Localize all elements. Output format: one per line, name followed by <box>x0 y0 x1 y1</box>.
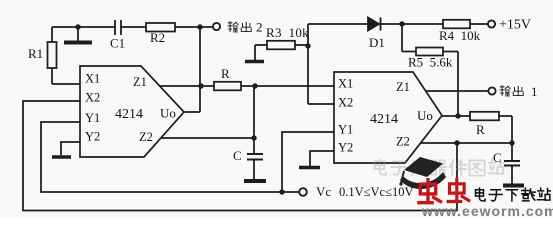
wire D1 node to R4 <box>402 23 443 25</box>
svg-text:Z2: Z2 <box>396 135 410 149</box>
junction R3 node <box>305 43 310 48</box>
capacitor C1 <box>115 20 121 35</box>
svg-text:Z1: Z1 <box>133 75 147 89</box>
wire Y2 first to ground <box>61 142 80 155</box>
resistor R2 <box>146 23 175 32</box>
svg-text:C: C <box>233 148 242 163</box>
diode D1 <box>368 18 402 31</box>
svg-text:X2: X2 <box>338 96 353 110</box>
watermark black site name <box>476 188 551 201</box>
resistor R5 <box>416 48 443 56</box>
svg-text:0.1V≤Vc≤10V: 0.1V≤Vc≤10V <box>339 185 413 199</box>
wire R right down <box>499 116 512 143</box>
op-amp U1 4214 first <box>80 66 184 157</box>
svg-text:www.eeworm.com: www.eeworm.com <box>421 203 553 218</box>
svg-text:Uo: Uo <box>160 106 176 121</box>
svg-text:Z2: Z2 <box>139 130 153 144</box>
label output2 <box>228 22 251 33</box>
ground C second <box>503 184 524 188</box>
junction D1 cathode node <box>399 21 404 26</box>
chip2 pin labels <box>338 77 433 155</box>
resistor R (right) <box>470 112 499 121</box>
svg-text:4214: 4214 <box>370 112 398 127</box>
svg-text:2: 2 <box>256 20 263 35</box>
junction C first node <box>251 135 256 140</box>
svg-text:Y2: Y2 <box>338 141 353 155</box>
wire node to X2 second <box>308 46 334 104</box>
svg-text:Y2: Y2 <box>85 130 100 144</box>
svg-text:+15V: +15V <box>499 18 531 33</box>
svg-text:X1: X1 <box>85 72 100 86</box>
junction node after R middle <box>252 83 257 88</box>
ground R3 <box>245 45 267 62</box>
terminal Vc <box>299 188 307 196</box>
resistor R (middle) <box>214 82 241 91</box>
ground top-left <box>64 27 92 43</box>
wire node to R5 <box>402 24 416 52</box>
wire Y2 second to ground <box>310 151 334 166</box>
svg-text:Z1: Z1 <box>396 80 410 94</box>
svg-text:D1: D1 <box>369 35 385 50</box>
wire Y1 Vc loop <box>41 122 299 192</box>
wire output2 vertical <box>184 27 200 112</box>
wire Z1 first <box>160 85 214 87</box>
svg-text:4214: 4214 <box>115 107 143 122</box>
junction output2 node <box>197 24 202 29</box>
junction C second node <box>509 140 514 145</box>
wire R4 to +15V <box>470 23 488 25</box>
watermark cap logo <box>399 157 446 189</box>
svg-text:R2: R2 <box>150 30 165 45</box>
svg-text:R4 10k: R4 10k <box>439 28 481 43</box>
svg-text:R3 10k: R3 10k <box>266 25 309 40</box>
wire X2 feedback loop <box>23 101 457 211</box>
terminal +15V <box>488 20 495 27</box>
wire Z1 second to output1 <box>426 90 488 92</box>
wire Uo second <box>442 115 470 117</box>
svg-text:Y1: Y1 <box>338 123 353 137</box>
wire R to X1 second <box>241 85 334 87</box>
wire R5 to output node <box>443 52 458 117</box>
svg-text:Uo: Uo <box>417 108 433 123</box>
wire R3 node <box>295 24 368 46</box>
junction Z2 feedback node <box>454 140 459 145</box>
svg-text:R: R <box>476 122 485 137</box>
svg-text:1: 1 <box>531 84 538 99</box>
watermark ghost text <box>375 159 504 175</box>
wire Y1 second <box>282 132 334 192</box>
op-amp U2 4214 second <box>334 72 442 163</box>
svg-text:C1: C1 <box>110 36 125 51</box>
capacitor C first <box>247 138 263 179</box>
chip1 pin labels <box>85 72 176 145</box>
wire mid vertical <box>253 86 255 138</box>
junction U1 output node <box>198 83 203 88</box>
svg-text:R: R <box>221 66 230 81</box>
ground C first <box>244 179 266 183</box>
wire Z2 first <box>161 137 254 139</box>
svg-text:X1: X1 <box>338 77 353 91</box>
terminal output2 <box>213 23 220 30</box>
ground Y2 first <box>52 155 71 159</box>
terminal output1 <box>488 87 495 94</box>
svg-text:X2: X2 <box>85 91 100 105</box>
label output1 <box>500 86 523 97</box>
svg-text:Y1: Y1 <box>85 111 100 125</box>
junction top-left ground node <box>75 24 80 29</box>
resistor R1 <box>48 27 81 84</box>
wire Z2 second <box>420 142 512 144</box>
junction Vc Y1 node <box>279 189 284 194</box>
watermark red chongchong <box>419 180 469 203</box>
svg-text:R5 5.6k: R5 5.6k <box>408 55 453 70</box>
resistor R4 <box>443 20 470 29</box>
ground Y2 second <box>299 166 320 170</box>
junction U2 output node <box>455 113 460 118</box>
capacitor C second <box>504 143 520 184</box>
svg-text:Vc: Vc <box>316 184 331 199</box>
resistor R3 <box>267 41 295 50</box>
svg-text:R1: R1 <box>28 46 43 61</box>
wire top rail <box>52 26 213 28</box>
